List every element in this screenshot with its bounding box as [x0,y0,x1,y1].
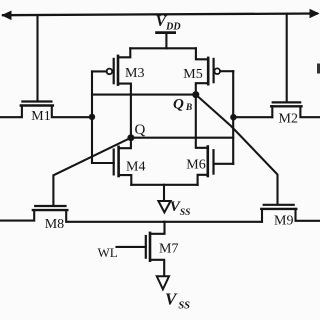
transistor M1 [22,100,51,102]
wire right gate vertical (Q net) [232,71,234,164]
svg-text:QB: QB [173,96,192,113]
transistor M9 [264,204,294,206]
wire left gate vertical (QB net) [91,71,93,163]
transistor M3 [118,48,130,57]
wire QB horizontal line [92,94,196,96]
svg-text:M9: M9 [274,214,293,229]
wire VDD stem [165,33,167,48]
wire top horizontal line [3,14,317,16]
svg-text:VSS: VSS [165,290,190,312]
svg-text:M8: M8 [45,217,64,232]
svg-text:VDD: VDD [156,13,181,33]
wire Q horizontal line [131,137,233,139]
wire M2 gate stem [286,14,288,102]
wire QB to M9 gate diagonal [196,95,278,204]
wire QB vertical to M6 drain [196,95,208,148]
svg-text:M7: M7 [159,241,178,256]
svg-text:M5: M5 [183,67,202,82]
transistor M4 [119,138,131,149]
transistor M5 [196,48,208,59]
svg-text:WL: WL [98,245,118,260]
ground VSS lower triangle [157,276,169,289]
wire M5 drain to QB dot [196,83,208,94]
wire M1 gate stem [36,15,38,100]
wire M2 lead from dot [233,116,272,118]
transistor M7 [150,222,165,234]
svg-text:M4: M4 [126,160,145,175]
wire bottom rail [165,221,263,223]
node partial letter right edge [317,64,320,74]
transistor M2 [273,101,301,103]
wire M4 gate lead [92,162,114,164]
wire M3 drain down to Q [118,84,131,138]
svg-text:M3: M3 [125,66,144,81]
node M2 junction dot [230,114,236,120]
wire Q to M8 gate diagonal [53,138,130,205]
svg-text:M1: M1 [31,109,50,124]
node right arrowhead [310,9,320,18]
wire VSS stem upper [163,185,165,202]
node left arrowhead [1,11,11,21]
svg-text:M2: M2 [279,111,298,126]
svg-text:M6: M6 [186,157,205,172]
wire M4 M6 source rail [131,184,197,186]
node QB junction dot [192,91,199,98]
wire M6 gate lead [214,163,234,165]
svg-text:VSS: VSS [170,199,191,218]
wire inverter top rail [130,47,196,49]
node M1 junction dot [89,114,95,120]
node Q dot [127,134,134,141]
node VDD terminal bar [155,31,176,34]
transistor M8 [35,205,65,207]
ground VSS upper triangle [158,201,170,212]
svg-text:Q: Q [135,122,146,138]
transistor M6 [207,147,210,177]
